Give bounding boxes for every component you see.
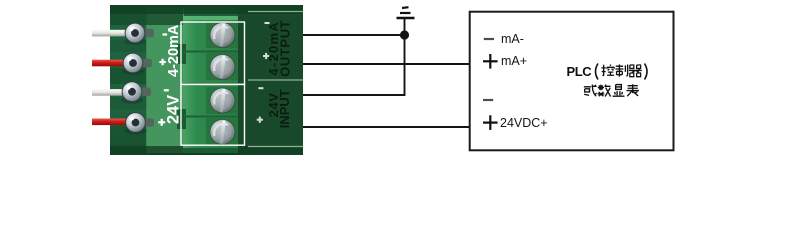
- svg-text:24VDC+: 24VDC+: [500, 116, 548, 130]
- white annotation box lower pair: [181, 84, 245, 145]
- screw terminal 2: [210, 54, 236, 80]
- wire mA- (PCB to junction): [303, 34, 405, 36]
- white wire W1 (mA-): [92, 23, 154, 45]
- wire mA+ (PCB to PLC): [303, 63, 469, 65]
- white wire W3 (24V-): [92, 82, 151, 104]
- PLC title line 1: fullwidth ): [645, 64, 648, 80]
- wire 24VDC+ (PCB to PLC): [303, 126, 469, 128]
- PCB label minus (lower right): [258, 87, 263, 89]
- PCB label plus (lower left): [158, 119, 165, 126]
- svg-text:4-20mA: 4-20mA: [166, 24, 182, 77]
- glyph 制: [615, 64, 627, 76]
- svg-text:PLC: PLC: [567, 64, 593, 79]
- PLC terminal mA- : minus: [484, 38, 494, 40]
- svg-text:mA-: mA-: [501, 32, 524, 46]
- wire 24V- (PCB to ground stem): [303, 18, 405, 95]
- junction dot (mA- / 24V- / earth): [400, 30, 409, 39]
- PCB label plus (lower right): [257, 117, 263, 123]
- PCB silkscreen lines: [248, 12, 303, 147]
- PCB label minus (upper left): [163, 33, 168, 35]
- screw terminal 1: [210, 22, 236, 48]
- PLC title line 1: fullwidth (: [596, 64, 599, 80]
- PLC terminal minus (unused): [483, 99, 493, 101]
- screw terminal 3: [210, 88, 236, 114]
- screw terminal 4: [210, 119, 236, 145]
- svg-text:OUTPUT: OUTPUT: [277, 20, 292, 77]
- PCB label plus (upper left): [159, 59, 165, 65]
- glyph 显: [613, 85, 625, 97]
- glyph 表: [626, 84, 638, 96]
- earth ground symbol: [397, 7, 415, 18]
- svg-text:INPUT: INPUT: [277, 89, 292, 128]
- red wire W2 (mA+): [92, 53, 152, 75]
- svg-text:24V: 24V: [165, 95, 183, 124]
- glyph 数: [597, 85, 610, 97]
- PLC box: [470, 12, 674, 151]
- PCB label plus (upper right): [263, 53, 269, 59]
- red wire W4 (24V+): [92, 113, 154, 135]
- PCB label minus (upper right): [265, 22, 270, 24]
- svg-text:mA+: mA+: [501, 54, 527, 68]
- PLC terminal mA+ : plus: [483, 54, 498, 69]
- white annotation box upper pair: [181, 22, 245, 84]
- PCB label minus (lower left): [164, 89, 169, 91]
- glyph 或: [584, 85, 597, 97]
- PCB photo background: [110, 5, 303, 155]
- terminal block TB1: [177, 16, 238, 153]
- PLC terminal 24VDC+ : plus: [483, 115, 498, 130]
- glyph 控: [601, 64, 614, 75]
- glyph 器: [629, 65, 642, 77]
